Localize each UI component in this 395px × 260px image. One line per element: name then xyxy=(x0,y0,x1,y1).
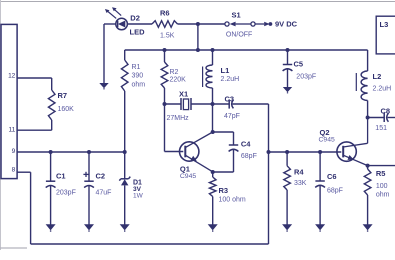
svg-text:C945: C945 xyxy=(180,173,196,180)
svg-text:LED: LED xyxy=(130,28,146,37)
svg-text:9V DC: 9V DC xyxy=(275,20,298,29)
svg-text:100: 100 xyxy=(376,183,388,190)
svg-text:C8: C8 xyxy=(381,107,391,116)
svg-text:2.2uH: 2.2uH xyxy=(221,76,240,83)
svg-text:1.5K: 1.5K xyxy=(160,33,175,40)
svg-text:203pF: 203pF xyxy=(296,74,316,81)
svg-text:100 ohm: 100 ohm xyxy=(219,197,246,204)
svg-text:ohm: ohm xyxy=(376,192,390,199)
svg-text:C945: C945 xyxy=(319,136,335,143)
svg-text:C5: C5 xyxy=(294,60,304,69)
svg-text:C1: C1 xyxy=(56,172,66,181)
svg-text:R2: R2 xyxy=(170,69,179,76)
svg-text:X1: X1 xyxy=(179,90,188,99)
svg-text:L3: L3 xyxy=(380,20,389,29)
svg-text:12: 12 xyxy=(8,72,16,79)
svg-text:C6: C6 xyxy=(327,172,337,181)
svg-text:68pF: 68pF xyxy=(327,188,343,195)
svg-text:9: 9 xyxy=(12,148,16,155)
svg-text:203pF: 203pF xyxy=(56,190,76,197)
svg-text:160K: 160K xyxy=(58,106,75,113)
svg-text:C4: C4 xyxy=(241,140,251,149)
svg-text:11: 11 xyxy=(9,126,16,133)
svg-text:390: 390 xyxy=(132,73,144,80)
svg-text:151: 151 xyxy=(375,125,387,132)
svg-text:R6: R6 xyxy=(160,9,170,18)
svg-text:68pF: 68pF xyxy=(241,153,257,160)
svg-text:L1: L1 xyxy=(221,66,230,75)
svg-text:ohm: ohm xyxy=(132,82,146,89)
svg-text:47pF: 47pF xyxy=(224,113,240,120)
svg-text:220K: 220K xyxy=(170,77,187,84)
svg-text:R7: R7 xyxy=(58,91,68,100)
svg-text:27MHz: 27MHz xyxy=(167,115,190,122)
svg-text:2.2uH: 2.2uH xyxy=(373,86,392,93)
svg-text:R4: R4 xyxy=(294,168,304,177)
svg-text:L2: L2 xyxy=(373,72,382,81)
svg-text:ON/OFF: ON/OFF xyxy=(226,32,252,39)
svg-text:R1: R1 xyxy=(132,64,141,71)
svg-text:C2: C2 xyxy=(96,172,106,181)
svg-text:47uF: 47uF xyxy=(96,190,112,197)
svg-text:8: 8 xyxy=(12,167,16,174)
svg-text:R3: R3 xyxy=(219,186,229,195)
svg-text:1W: 1W xyxy=(133,193,144,200)
svg-text:C3: C3 xyxy=(225,95,235,104)
svg-text:D2: D2 xyxy=(130,14,140,23)
svg-text:S1: S1 xyxy=(232,11,241,20)
svg-text:R5: R5 xyxy=(376,169,386,178)
svg-text:33K: 33K xyxy=(294,180,307,187)
